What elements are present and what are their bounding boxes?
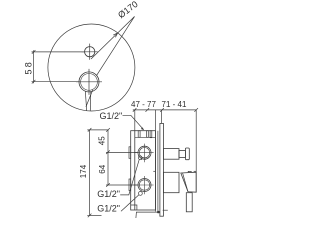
- svg-text:71 - 41: 71 - 41: [162, 100, 187, 109]
- svg-text:G1/2": G1/2": [97, 204, 120, 214]
- svg-text:58: 58: [23, 62, 33, 74]
- dimension 58: [32, 50, 85, 83]
- svg-text:174: 174: [79, 164, 88, 178]
- screw slot 1: [138, 131, 140, 138]
- body face lines: [153, 131, 158, 212]
- leader dot on plate bottom: [157, 210, 168, 213]
- svg-text:45: 45: [98, 136, 107, 145]
- wall plate (edge-on): [160, 123, 164, 216]
- port circle bottom (side view): [134, 176, 154, 194]
- dimension 174: [87, 128, 108, 217]
- small crosshair circle: [82, 44, 98, 60]
- diverter knob (top, front of wall): [163, 148, 189, 160]
- port circle top (side view): [134, 144, 154, 163]
- handle base and lever (front of wall): [163, 171, 196, 211]
- svg-text:64: 64: [98, 164, 107, 173]
- svg-text:G1/2": G1/2": [100, 111, 123, 121]
- lever (front view, pointing down): [85, 90, 93, 111]
- leader to bottom port: [121, 192, 142, 212]
- plate circle (front view): [48, 24, 135, 111]
- leader lines for diameter: [91, 17, 135, 76]
- thread marks below top port: [142, 159, 145, 160]
- svg-text:47 - 77: 47 - 77: [131, 100, 156, 109]
- leader to body top: [123, 115, 145, 130]
- svg-text:G1/2": G1/2": [97, 189, 120, 199]
- valve body (behind wall): [131, 131, 156, 210]
- screw slot 3: [150, 131, 152, 138]
- dimension 45 / 64: [106, 128, 138, 187]
- big crosshair circle (handle hub): [76, 69, 102, 95]
- left side bumps (inlets edge-on): [129, 147, 131, 191]
- mounting bracket hook: [136, 212, 157, 218]
- leader to top port: [120, 156, 142, 195]
- dimension line top of side view: [133, 108, 198, 192]
- screw slot 2: [147, 131, 149, 138]
- svg-text:Ø170: Ø170: [116, 0, 140, 20]
- body bottom notch: [131, 205, 137, 210]
